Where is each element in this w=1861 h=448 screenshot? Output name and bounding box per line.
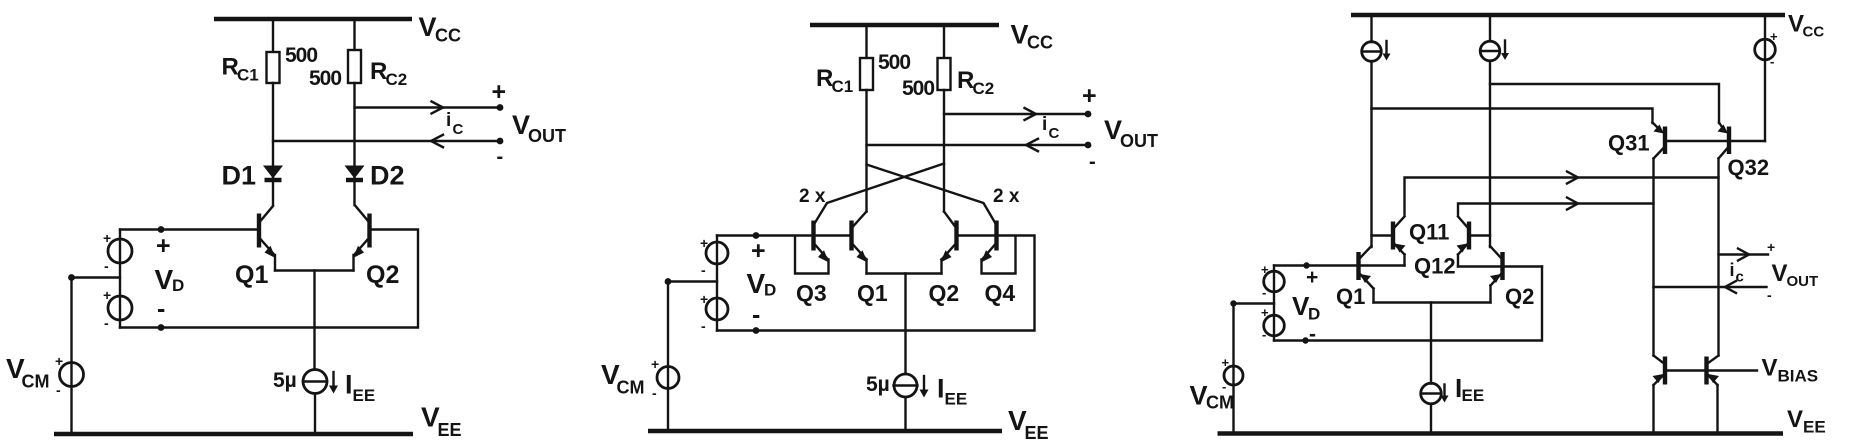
wire RC2 bottom: [943, 90, 945, 212]
svg-text:Q1: Q1: [857, 280, 888, 306]
wire VD midpoint to VCM: [72, 278, 121, 435]
voltage source at VCC (top right): [1764, 15, 1766, 141]
source VD upper: [1273, 266, 1275, 341]
svg-text:EE: EE: [353, 386, 376, 405]
wire RC1 bottom to D1 and Q1 collector: [272, 83, 274, 205]
wire Q2 base loop right: [120, 230, 418, 328]
wire RC1 top: [865, 25, 867, 58]
svg-text:Q3: Q3: [796, 280, 827, 306]
source VD lower: [108, 296, 132, 320]
svg-text:+: +: [651, 356, 659, 372]
svg-text:Q2: Q2: [929, 280, 960, 306]
wire Q1 base from VD+: [120, 228, 259, 230]
svg-text:i: i: [1730, 260, 1735, 280]
source VCM: [1224, 366, 1243, 385]
svg-text:5µ: 5µ: [273, 369, 297, 392]
svg-text:+: +: [1082, 82, 1097, 110]
svg-text:Q2: Q2: [1505, 284, 1534, 309]
svg-text:C: C: [1049, 125, 1060, 142]
diode D1: [263, 166, 283, 179]
transistor Q2: [1500, 252, 1504, 280]
svg-text:-: -: [104, 315, 109, 331]
tail wire down: [313, 271, 315, 370]
wire IEE to VEE rail: [1430, 404, 1432, 432]
emitter rail: [867, 272, 942, 274]
svg-text:Q31: Q31: [1608, 131, 1650, 156]
transistor Q1: [1356, 252, 1360, 280]
svg-text:-: -: [104, 258, 109, 274]
svg-text:OUT: OUT: [528, 126, 566, 146]
svg-text:CM: CM: [22, 372, 50, 392]
wire RC1 top: [272, 19, 274, 52]
wire IEE to VEE rail: [314, 394, 316, 435]
svg-text:EE: EE: [438, 420, 462, 440]
output wire - (bottom): [867, 144, 1089, 146]
svg-text:+: +: [103, 230, 111, 246]
emitter rail: [275, 269, 354, 271]
resistor RC1: [860, 58, 873, 90]
svg-text:V: V: [155, 264, 174, 295]
svg-text:Q32: Q32: [1728, 155, 1770, 180]
svg-text:+: +: [156, 232, 171, 260]
svg-text:V: V: [1787, 406, 1803, 433]
svg-text:OUT: OUT: [1120, 131, 1158, 151]
Q32 collector vertical: [1717, 159, 1719, 356]
output wire + (top): [944, 113, 1088, 115]
svg-text:V: V: [1190, 381, 1208, 411]
transistor Q3 (diode-connected): [811, 221, 815, 251]
svg-text:EE: EE: [1025, 423, 1049, 443]
transistor Q2: [954, 221, 958, 251]
Q11 emitter loop to Q1 base line: [1403, 255, 1405, 266]
svg-text:CM: CM: [1206, 393, 1234, 413]
wire RC2 top: [943, 25, 945, 58]
output wire + (top): [355, 106, 501, 108]
wire I1 to Q1 collector (long vertical): [1370, 61, 1372, 247]
svg-text:EE: EE: [1462, 386, 1485, 405]
svg-text:i: i: [1042, 114, 1047, 135]
svg-text:+: +: [492, 78, 507, 106]
svg-text:D: D: [1308, 305, 1320, 324]
wire I1 branch to Q31 emitter: [1372, 109, 1653, 124]
svg-text:-: -: [701, 262, 706, 278]
svg-text:EE: EE: [1803, 418, 1826, 437]
VEE rail: [54, 432, 413, 437]
svg-text:+: +: [1306, 266, 1318, 289]
svg-text:+: +: [1261, 262, 1269, 277]
svg-text:-: -: [157, 295, 165, 323]
svg-text:CC: CC: [435, 26, 461, 46]
svg-text:Q11: Q11: [1409, 220, 1449, 245]
svg-text:C2: C2: [386, 70, 408, 89]
current source IEE: [894, 374, 917, 397]
svg-text:-: -: [497, 146, 504, 168]
svg-text:C2: C2: [973, 79, 995, 98]
tail wire down: [1430, 303, 1432, 384]
current source I2: [1489, 15, 1491, 41]
svg-text:Q1: Q1: [235, 261, 268, 289]
base wire right (Q2,Q4 loop to VD-): [717, 236, 1035, 331]
base line Q1 (VD+ to Q11 emitter): [1274, 264, 1405, 266]
svg-text:+: +: [1767, 239, 1775, 255]
svg-text:i: i: [446, 110, 451, 131]
svg-text:BIAS: BIAS: [1778, 367, 1819, 386]
svg-text:+: +: [1222, 355, 1230, 370]
source VD lower: [1264, 315, 1285, 336]
transistor Q12: [1467, 222, 1471, 250]
svg-text:-: -: [1089, 151, 1096, 173]
transistor Q1: [257, 214, 261, 248]
svg-text:OUT: OUT: [1787, 273, 1819, 290]
base line Q2 (Q12 emitter through Q2 to right): [1458, 265, 1542, 267]
output wire - (bottom): [273, 140, 500, 142]
svg-text:+: +: [103, 287, 111, 303]
svg-text:500: 500: [878, 51, 910, 74]
svg-text:+: +: [700, 235, 708, 251]
wire VD midpoint to VCM: [668, 282, 717, 432]
base wire Q31-Q32 to bias source: [1666, 140, 1765, 142]
svg-text:Q2: Q2: [366, 261, 399, 289]
svg-text:Q12: Q12: [1414, 254, 1456, 279]
svg-text:CC: CC: [1803, 24, 1825, 41]
svg-text:+: +: [55, 353, 63, 369]
resistor RC2: [938, 58, 951, 90]
wire VD midpoint to VCM: [1234, 304, 1275, 432]
wire IEE to VEE rail: [904, 398, 906, 432]
svg-text:V: V: [747, 268, 766, 299]
svg-text:500: 500: [902, 77, 934, 100]
svg-text:-: -: [701, 318, 706, 334]
transistor Q1: [849, 221, 853, 251]
svg-text:Q1: Q1: [1336, 284, 1365, 309]
transistor Q4 (diode-connected): [994, 221, 998, 251]
emitter rail: [1374, 301, 1491, 303]
svg-text:D: D: [764, 281, 776, 300]
transistor Q2: [367, 214, 371, 248]
resistor RC2: [348, 50, 361, 83]
svg-text:D2: D2: [370, 161, 405, 191]
wire Q2 base loop to VD-: [1274, 267, 1542, 341]
VCC rail: [214, 17, 412, 22]
svg-text:+: +: [1261, 305, 1269, 320]
transistor Q11: [1391, 222, 1395, 250]
output wire + (top): [1719, 253, 1769, 255]
VEE rail: [1218, 431, 1784, 436]
Q31 collector vertical: [1652, 159, 1654, 356]
svg-text:I: I: [937, 374, 945, 404]
svg-text:-: -: [1767, 287, 1772, 303]
wire I2 to Q2 collector (long vertical): [1489, 61, 1491, 247]
svg-text:-: -: [1262, 285, 1266, 300]
svg-text:+: +: [1770, 29, 1778, 44]
svg-text:+: +: [751, 237, 766, 265]
tail wire down: [904, 274, 906, 375]
transistor QB1 (bottom left, VBIAS): [1663, 357, 1667, 385]
cross-couple diagonal Q3 to RC2: [815, 164, 945, 224]
svg-text:I: I: [345, 370, 353, 400]
svg-text:D1: D1: [222, 161, 257, 191]
svg-text:-: -: [1770, 54, 1774, 69]
svg-text:Q4: Q4: [985, 280, 1016, 306]
source VD lower: [706, 298, 728, 320]
wire Q11 collector to Q32 collector: [1405, 178, 1719, 215]
VCC rail: [1351, 13, 1785, 18]
svg-text:500: 500: [285, 44, 317, 67]
svg-text:CC: CC: [1027, 33, 1053, 53]
svg-text:V: V: [419, 12, 437, 42]
wire Q12 collector to Q31 collector: [1458, 204, 1654, 215]
output wire - (bottom): [1654, 286, 1767, 288]
svg-text:C1: C1: [237, 66, 259, 85]
svg-text:-: -: [652, 385, 657, 401]
svg-text:C: C: [453, 121, 464, 138]
svg-text:V: V: [1762, 355, 1778, 382]
transistor Q32 (PNP): [1727, 127, 1731, 155]
base wire to VBIAS: [1666, 369, 1757, 371]
current source I1: [1370, 15, 1372, 42]
transistor Q31 (PNP): [1663, 127, 1667, 155]
VCC rail: [810, 23, 999, 28]
wire RC2 top: [353, 19, 355, 50]
base wire left (VD+ to Q3,Q1): [717, 234, 852, 236]
current source IEE: [1421, 383, 1442, 404]
cross-couple diagonal Q4 to RC1: [867, 165, 996, 224]
svg-text:-: -: [752, 301, 760, 329]
svg-text:2 x: 2 x: [799, 186, 826, 207]
wire RC2 bottom to D2 and Q2 collector: [353, 83, 355, 205]
source VCM: [657, 367, 679, 389]
wire I2 branch to Q32 emitter: [1490, 84, 1719, 123]
svg-text:CM: CM: [617, 378, 645, 398]
svg-text:2 x: 2 x: [993, 186, 1020, 207]
svg-text:EE: EE: [945, 390, 968, 409]
svg-text:V: V: [1011, 20, 1029, 50]
current source IEE: [303, 370, 327, 394]
svg-text:c: c: [1736, 269, 1744, 286]
svg-text:V: V: [1772, 260, 1788, 287]
svg-text:D: D: [172, 276, 184, 295]
diode D2: [345, 166, 365, 179]
transistor QB2 (bottom right, VBIAS): [1704, 357, 1708, 385]
svg-text:-: -: [1309, 323, 1316, 346]
resistor RC1: [267, 52, 280, 83]
svg-text:C1: C1: [832, 77, 854, 96]
svg-text:+: +: [700, 291, 708, 307]
svg-text:-: -: [1262, 327, 1266, 342]
source VCM: [60, 363, 84, 387]
VEE rail: [648, 429, 1002, 434]
source VD upper: [716, 236, 718, 331]
svg-text:500: 500: [309, 67, 341, 90]
source VD upper: [119, 230, 121, 328]
wire RC1 bottom: [865, 90, 867, 212]
Q12 emitter loop to Q2 base line: [1457, 255, 1459, 267]
svg-text:5µ: 5µ: [866, 373, 890, 396]
svg-text:-: -: [56, 382, 61, 398]
